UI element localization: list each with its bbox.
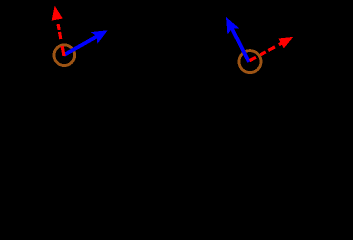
left red vector arrowhead [52, 7, 61, 20]
left blue vector arrowhead [92, 31, 106, 42]
right blue vector arrowhead [227, 18, 238, 33]
left blue vector shaft [64, 36, 98, 55]
left particle circle [54, 45, 75, 66]
right particle circle [239, 51, 261, 73]
right red vector arrowhead [279, 38, 291, 48]
left red dashed vector: dash 3 [58, 24, 59, 30]
left red dashed vector: dash 1 [62, 46, 64, 56]
right red dashed vector: dash 1 [250, 57, 256, 60]
right red dashed vector: dash 4 [279, 43, 282, 45]
right red dashed vector: dash 2 [260, 52, 265, 55]
left red dashed vector: dash 2 [60, 32, 61, 39]
right blue vector shaft [231, 28, 249, 62]
right red dashed vector: dash 3 [268, 47, 275, 51]
